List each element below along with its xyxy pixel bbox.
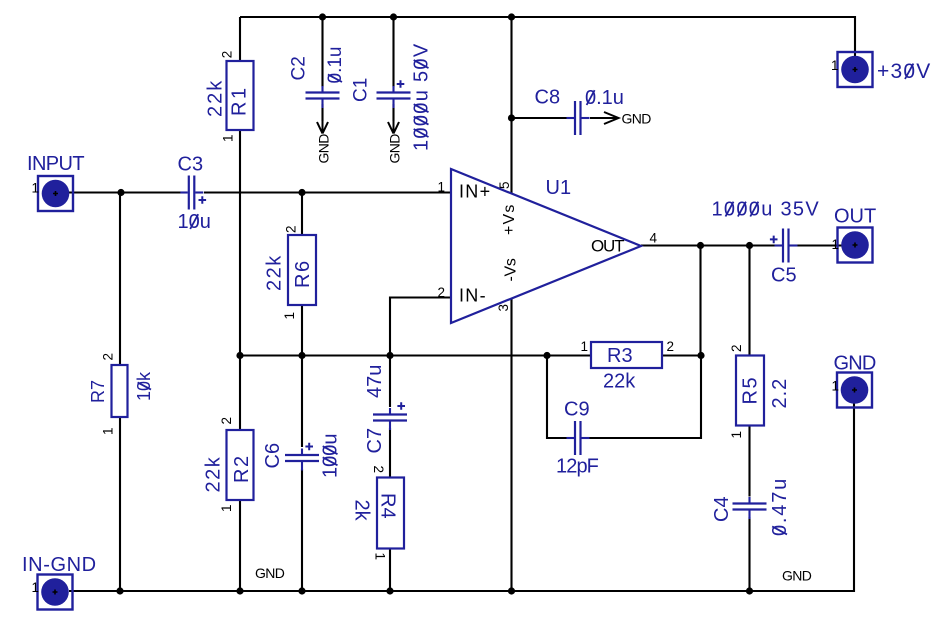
svg-text:C1: C1: [351, 78, 372, 102]
svg-text:C6: C6: [262, 443, 284, 469]
junction mid rail / IN- C7: [386, 352, 393, 359]
svg-text:C9: C9: [564, 399, 590, 421]
capacitor C6 (100u): [285, 449, 319, 471]
junction top rail / +Vs: [508, 13, 515, 20]
wire R6 top: [301, 193, 303, 236]
wire op-amp output to C5: [641, 244, 776, 246]
svg-text:+30V: +30V: [877, 60, 931, 83]
pad GND: [837, 373, 872, 408]
svg-text:IN+: IN+: [459, 182, 491, 202]
junction ground rail / -Vs: [508, 587, 515, 594]
svg-text:1000u 50V: 1000u 50V: [411, 43, 433, 151]
capacitor C8 (0.1u supply bypass): [567, 101, 590, 135]
wire mid feedback rail: [240, 354, 547, 356]
svg-text:1: 1: [221, 134, 236, 142]
junction output / R3 branch: [697, 242, 704, 249]
wire op-amp IN- branch: [390, 298, 451, 356]
ground arrow for C8: [590, 112, 619, 124]
wire C1 branch lower to GND arrow: [392, 104, 394, 121]
wire R1 bottom down to mid rail junction: [239, 130, 241, 430]
svg-text:U1: U1: [546, 177, 572, 199]
svg-text:GND: GND: [316, 134, 332, 164]
svg-text:1000u 35V: 1000u 35V: [712, 199, 820, 221]
svg-text:3: 3: [496, 304, 511, 312]
junction input / R6: [298, 189, 305, 196]
svg-text:2: 2: [220, 51, 235, 59]
svg-text:R6: R6: [292, 259, 314, 288]
pad +30V: [838, 52, 873, 87]
resistor R5: [736, 356, 764, 426]
svg-text:C7: C7: [364, 428, 386, 454]
resistor R7: [112, 365, 128, 417]
junction +Vs / C8: [508, 114, 515, 121]
wire input net C3 to op-amp IN+: [204, 191, 451, 193]
svg-text:5: 5: [497, 181, 512, 189]
svg-text:22k: 22k: [603, 371, 636, 393]
svg-text:1: 1: [282, 312, 297, 320]
junction ground rail / R4: [386, 587, 393, 594]
svg-text:2: 2: [371, 466, 386, 474]
wire output junction down to R3 pin2: [699, 246, 701, 356]
svg-text:GND: GND: [255, 565, 285, 581]
resistor R1: [227, 61, 254, 130]
capacitor C2 (0.1u decoupling): [306, 86, 340, 108]
capacitor C4 (0.47u zobel): [733, 497, 767, 519]
ground arrow for C1: [388, 120, 399, 134]
svg-text:47u: 47u: [364, 365, 386, 398]
svg-text:C4: C4: [711, 496, 733, 522]
svg-text:1: 1: [729, 431, 744, 439]
svg-text:2: 2: [667, 339, 675, 354]
junction input / R7: [117, 189, 124, 196]
wire R3 pin1 stub: [547, 354, 591, 356]
junction top rail / C2: [319, 13, 326, 20]
svg-text:1: 1: [832, 237, 840, 252]
wire C6 bottom to ground rail: [301, 469, 303, 591]
wire input net INPUT pad to C3: [69, 191, 181, 193]
resistor R6: [288, 235, 316, 305]
svg-text:1: 1: [101, 427, 116, 435]
svg-text:2: 2: [101, 353, 116, 361]
wire C8 right segment to GND arrow: [590, 117, 617, 119]
svg-text:-Vs: -Vs: [503, 258, 520, 281]
svg-text:R3: R3: [607, 345, 633, 367]
wire R5 bottom to C4: [748, 426, 750, 497]
wire C2 branch upper: [321, 17, 323, 87]
plus sign of C5: [770, 236, 778, 244]
wire R3 pin2 stub: [662, 354, 701, 356]
svg-text:12pF: 12pF: [556, 456, 599, 478]
pad INPUT: [38, 176, 73, 211]
svg-text:R4: R4: [377, 493, 399, 519]
capacitor C7 (47u feedback): [373, 408, 407, 430]
junction mid rail / C6: [298, 352, 305, 359]
wire C9 loop right: [590, 356, 702, 439]
svg-text:+Vs: +Vs: [501, 203, 518, 235]
wire R2 bottom to ground rail: [239, 500, 241, 591]
svg-text:IN-GND: IN-GND: [22, 554, 97, 576]
capacitor C9 (12pF compensation): [567, 421, 590, 455]
svg-text:OUT: OUT: [834, 206, 876, 228]
svg-text:R1: R1: [229, 85, 251, 116]
svg-text:1: 1: [832, 379, 840, 394]
junction ground rail / C6: [298, 587, 305, 594]
svg-text:GND: GND: [387, 134, 403, 164]
junction top rail / C1: [390, 13, 397, 20]
junction mid rail / R1 R2: [236, 352, 243, 359]
wire C5 to OUT pad: [797, 244, 855, 246]
wire C7 top stub: [389, 356, 391, 408]
svg-text:1: 1: [32, 580, 40, 595]
capacitor C5 (1000u 35V output coupling): [775, 229, 798, 263]
svg-text:INPUT: INPUT: [27, 153, 84, 175]
svg-text:R2: R2: [231, 454, 253, 483]
wire R6 bottom through mid rail to C6: [301, 305, 303, 447]
wire R7 bottom to ground rail: [119, 417, 121, 591]
wire C9 loop left: [547, 356, 567, 439]
resistor R4: [377, 478, 404, 549]
svg-text:GND: GND: [782, 568, 812, 584]
svg-text:1: 1: [581, 339, 589, 354]
svg-text:4: 4: [650, 231, 658, 246]
wire top supply rail from R1 to +30V pad: [240, 17, 855, 69]
wire +Vs supply drop to op-amp: [510, 17, 512, 194]
svg-text:1: 1: [438, 180, 446, 195]
svg-text:R7: R7: [88, 380, 108, 403]
wire -Vs drop to ground rail: [510, 299, 512, 592]
svg-text:R5: R5: [740, 376, 762, 405]
svg-text:22k: 22k: [203, 456, 225, 493]
ground arrow for C2: [317, 120, 328, 134]
junction output / R5 branch: [746, 242, 753, 249]
wire ground rail: [69, 390, 854, 591]
capacitor C1 (1000u 50V reservoir): [377, 86, 411, 108]
svg-text:GND: GND: [622, 111, 652, 127]
svg-text:1: 1: [831, 58, 839, 73]
svg-text:2: 2: [729, 344, 744, 352]
plus sign of C6: [305, 443, 313, 451]
svg-text:C8: C8: [535, 87, 561, 109]
wire C1 branch upper: [392, 17, 394, 87]
junction ground rail / R2: [236, 587, 243, 594]
svg-text:2: 2: [219, 417, 234, 425]
wire R1 top stub: [239, 17, 241, 61]
resistor R2: [227, 430, 254, 500]
wire C8 left segment: [512, 117, 567, 119]
capacitor C3 (10u input coupling): [180, 176, 203, 210]
svg-text:1: 1: [373, 553, 388, 561]
pad IN-GND: [38, 575, 73, 610]
resistor R3: [591, 342, 662, 368]
plus sign of C3: [199, 196, 207, 204]
junction mid rail / R3 C9: [543, 352, 550, 359]
svg-text:1: 1: [32, 181, 40, 196]
wire R4 bottom to ground rail: [389, 549, 391, 592]
svg-text:2: 2: [438, 285, 446, 300]
svg-text:C5: C5: [771, 265, 797, 287]
wire C2 branch lower to GND arrow: [321, 104, 323, 121]
pad OUT: [838, 228, 873, 263]
svg-text:C3: C3: [178, 154, 204, 176]
svg-text:2: 2: [284, 225, 299, 233]
svg-text:C2: C2: [289, 56, 310, 80]
svg-text:IN-: IN-: [459, 286, 487, 306]
junction ground rail / C4: [746, 587, 753, 594]
plus sign of C1: [397, 80, 405, 88]
svg-text:2.2: 2.2: [769, 378, 791, 409]
wire output junction down to R5: [748, 246, 750, 356]
wire R7 top: [119, 193, 121, 366]
wire C7 to R4: [389, 428, 391, 478]
svg-text:22k: 22k: [264, 254, 286, 291]
svg-text:100u: 100u: [320, 434, 342, 479]
svg-text:2k: 2k: [351, 500, 373, 522]
svg-text:1: 1: [219, 504, 234, 512]
svg-text:OUT: OUT: [591, 237, 624, 256]
svg-text:22k: 22k: [205, 79, 227, 117]
junction R3 pin2 / C9: [697, 352, 704, 359]
op-amp U1 triangle: [451, 169, 641, 323]
plus sign of C7: [397, 402, 405, 410]
junction ground rail / R7: [116, 587, 123, 594]
wire C4 bottom to ground rail: [748, 517, 750, 591]
svg-text:GND: GND: [834, 353, 876, 375]
